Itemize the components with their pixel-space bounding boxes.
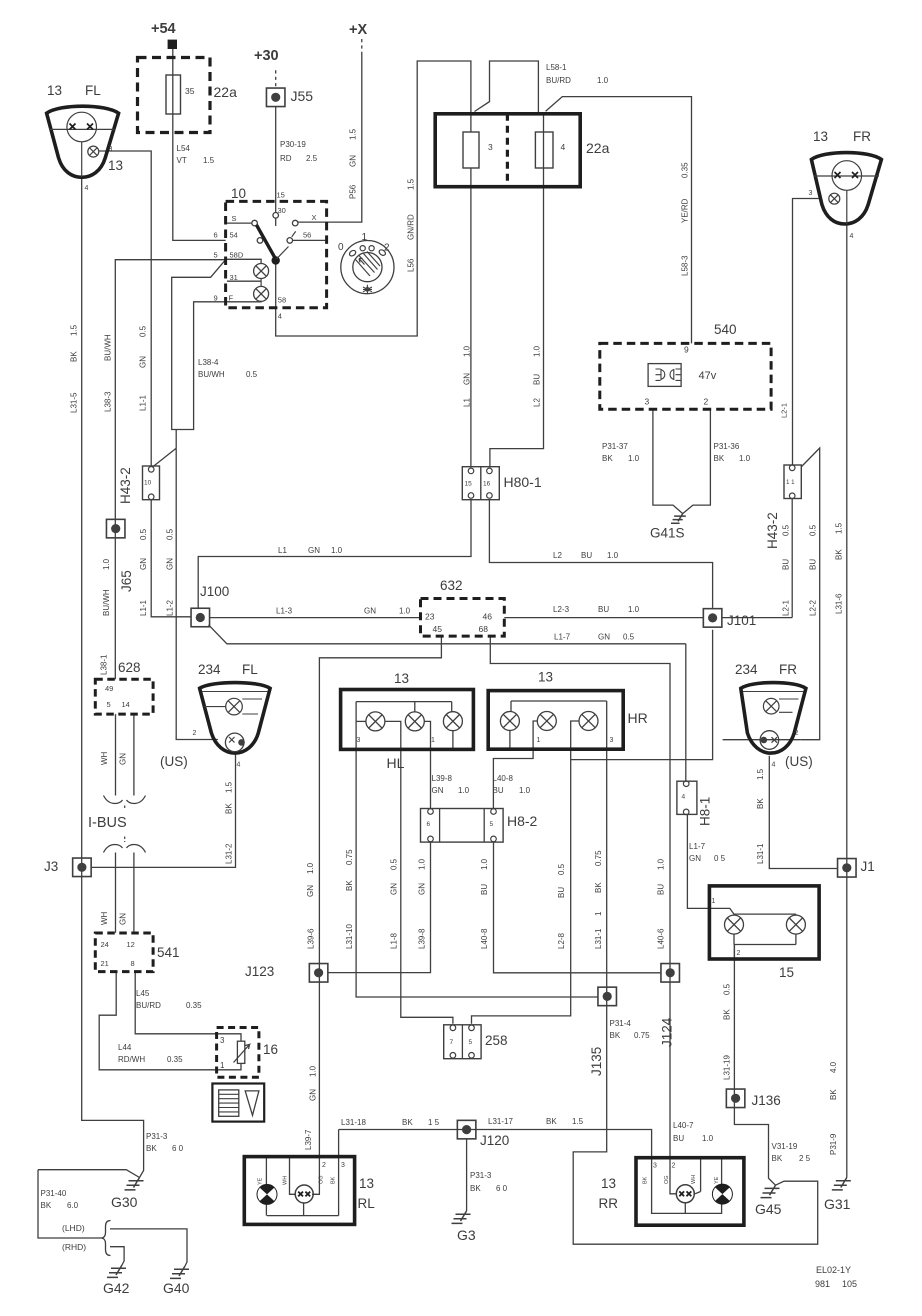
svg-text:L31-1: L31-1: [756, 843, 765, 864]
svg-text:L2: L2: [533, 398, 542, 407]
svg-text:L45: L45: [136, 989, 150, 998]
svg-text:J124: J124: [660, 1017, 675, 1047]
svg-text:GN: GN: [418, 883, 427, 895]
svg-text:FL: FL: [85, 83, 101, 98]
svg-text:I-BUS: I-BUS: [88, 815, 127, 831]
svg-text:6 0: 6 0: [172, 1144, 184, 1153]
svg-text:5: 5: [214, 251, 218, 260]
svg-text:J65: J65: [119, 570, 134, 592]
svg-text:13: 13: [538, 670, 553, 685]
svg-text:BU/RD: BU/RD: [136, 1001, 161, 1010]
svg-text:0.5: 0.5: [166, 528, 175, 540]
svg-text:0.5: 0.5: [139, 325, 148, 337]
svg-text:YE: YE: [714, 1176, 720, 1184]
svg-text:H8-2: H8-2: [507, 813, 538, 829]
svg-text:981: 981: [815, 1279, 830, 1289]
svg-text:6: 6: [214, 231, 218, 240]
svg-text:58D: 58D: [230, 251, 244, 260]
svg-text:G3: G3: [457, 1227, 476, 1243]
svg-text:BK: BK: [772, 1154, 783, 1163]
svg-text:L2-1: L2-1: [782, 599, 791, 616]
svg-text:BU: BU: [493, 786, 504, 795]
svg-text:L31-2: L31-2: [225, 843, 234, 864]
svg-text:1.0: 1.0: [739, 454, 751, 463]
svg-text:BK: BK: [225, 803, 234, 814]
svg-text:1.5: 1.5: [225, 781, 234, 793]
svg-text:14: 14: [122, 700, 130, 709]
svg-text:L31-1: L31-1: [594, 928, 603, 949]
svg-text:0.5: 0.5: [246, 370, 258, 379]
svg-text:+X: +X: [349, 22, 367, 38]
svg-text:1.0: 1.0: [418, 858, 427, 870]
svg-text:L1-7: L1-7: [689, 842, 706, 851]
svg-text:16: 16: [483, 481, 491, 488]
svg-text:4: 4: [772, 762, 776, 769]
svg-text:(RHD): (RHD): [62, 1242, 86, 1252]
svg-text:4: 4: [561, 142, 566, 152]
svg-text:(US): (US): [160, 754, 188, 769]
svg-text:RD/WH: RD/WH: [118, 1055, 145, 1064]
svg-text:1.0: 1.0: [331, 546, 343, 555]
svg-text:L40-6: L40-6: [657, 928, 666, 949]
svg-text:BU: BU: [809, 559, 818, 570]
svg-text:L2: L2: [553, 551, 562, 560]
svg-text:BK: BK: [643, 1176, 649, 1184]
svg-text:13: 13: [47, 83, 62, 98]
svg-text:BU/RD: BU/RD: [546, 76, 571, 85]
svg-text:G42: G42: [103, 1280, 130, 1296]
svg-text:16: 16: [263, 1042, 278, 1057]
svg-text:H43-2: H43-2: [765, 512, 780, 549]
svg-text:3: 3: [653, 1163, 657, 1170]
svg-text:10: 10: [144, 480, 152, 487]
svg-text:1.0: 1.0: [607, 551, 619, 560]
svg-text:OG: OG: [319, 1175, 325, 1184]
svg-text:30: 30: [278, 206, 286, 215]
svg-text:WH: WH: [100, 751, 109, 765]
svg-text:L38-4: L38-4: [198, 358, 219, 367]
svg-text:BK: BK: [345, 880, 354, 891]
svg-text:H8-1: H8-1: [698, 797, 713, 826]
svg-text:9: 9: [684, 345, 689, 355]
svg-text:0.75: 0.75: [594, 850, 603, 866]
svg-text:1: 1: [594, 911, 603, 916]
svg-text:23: 23: [425, 612, 435, 622]
svg-text:L40-8: L40-8: [493, 774, 514, 783]
svg-text:3: 3: [357, 737, 361, 744]
svg-text:HL: HL: [387, 755, 405, 771]
svg-text:BU: BU: [657, 884, 666, 895]
svg-text:GN: GN: [349, 155, 358, 167]
svg-text:1: 1: [712, 898, 716, 905]
svg-text:P30-19: P30-19: [280, 140, 306, 149]
svg-text:J120: J120: [480, 1133, 509, 1148]
svg-text:P31-37: P31-37: [602, 442, 628, 451]
svg-text:FL: FL: [242, 662, 258, 677]
svg-text:L1-1: L1-1: [139, 394, 148, 411]
svg-text:2: 2: [384, 243, 390, 254]
svg-text:BK: BK: [146, 1144, 157, 1153]
svg-text:1.5: 1.5: [756, 768, 765, 780]
svg-text:540: 540: [714, 322, 737, 337]
svg-text:2: 2: [704, 397, 709, 407]
svg-text:BK: BK: [470, 1184, 481, 1193]
svg-text:31: 31: [230, 273, 238, 282]
svg-text:15: 15: [779, 965, 794, 980]
svg-text:1.0: 1.0: [702, 1134, 714, 1143]
svg-text:15: 15: [465, 481, 473, 488]
svg-text:45: 45: [433, 624, 443, 634]
svg-text:GN: GN: [364, 607, 376, 616]
svg-text:2.5: 2.5: [306, 154, 318, 163]
svg-text:BK: BK: [70, 351, 79, 362]
svg-text:4.0: 4.0: [829, 1061, 838, 1073]
svg-text:22a: 22a: [214, 84, 238, 100]
svg-text:3: 3: [645, 397, 650, 407]
svg-text:L38-3: L38-3: [104, 391, 113, 412]
svg-text:GN: GN: [309, 1089, 318, 1101]
svg-text:BU/WH: BU/WH: [102, 589, 111, 616]
svg-text:FR: FR: [853, 129, 871, 144]
svg-text:BK: BK: [835, 549, 844, 560]
svg-text:13: 13: [359, 1176, 374, 1191]
svg-text:1.0: 1.0: [480, 858, 489, 870]
svg-text:L31-19: L31-19: [723, 1055, 732, 1080]
svg-text:BU: BU: [557, 887, 566, 898]
svg-text:2: 2: [795, 730, 799, 737]
svg-text:YE/RD: YE/RD: [681, 198, 690, 223]
svg-text:J136: J136: [752, 1093, 781, 1108]
svg-text:L58-1: L58-1: [546, 63, 567, 72]
svg-text:L2-2: L2-2: [809, 599, 818, 616]
svg-text:1.5: 1.5: [407, 178, 416, 190]
svg-text:628: 628: [118, 660, 141, 675]
svg-text:X: X: [312, 213, 317, 222]
svg-text:1: 1: [362, 232, 368, 243]
svg-text:BU: BU: [581, 551, 592, 560]
svg-text:0.35: 0.35: [681, 162, 690, 178]
svg-text:0.5: 0.5: [390, 858, 399, 870]
svg-text:24: 24: [101, 940, 109, 949]
svg-text:234: 234: [198, 662, 221, 677]
svg-text:3: 3: [341, 1162, 345, 1169]
svg-text:0.35: 0.35: [186, 1001, 202, 1010]
svg-text:58: 58: [278, 296, 286, 305]
svg-text:2: 2: [737, 950, 741, 957]
svg-text:2 5: 2 5: [799, 1154, 811, 1163]
svg-text:BK: BK: [402, 1118, 413, 1127]
svg-text:105: 105: [842, 1279, 857, 1289]
svg-text:BU: BU: [782, 559, 791, 570]
svg-text:GN: GN: [166, 558, 175, 570]
svg-text:10: 10: [231, 186, 246, 201]
svg-text:L39-8: L39-8: [418, 928, 427, 949]
svg-text:BK: BK: [714, 454, 725, 463]
svg-text:8: 8: [131, 959, 135, 968]
svg-text:68: 68: [479, 624, 489, 634]
svg-text:L1: L1: [463, 398, 472, 407]
svg-text:OG: OG: [664, 1175, 670, 1184]
svg-text:P31-3: P31-3: [146, 1132, 168, 1141]
svg-text:1.0: 1.0: [657, 858, 666, 870]
svg-text:P31-4: P31-4: [610, 1019, 632, 1028]
svg-text:S: S: [232, 214, 237, 223]
svg-text:L2-1: L2-1: [780, 403, 789, 418]
svg-text:1.5: 1.5: [349, 128, 358, 140]
svg-text:GN: GN: [463, 373, 472, 385]
svg-text:BK: BK: [829, 1089, 838, 1100]
svg-text:3: 3: [809, 190, 813, 197]
svg-text:GN: GN: [432, 786, 444, 795]
svg-text:1: 1: [220, 1061, 225, 1070]
svg-text:GN: GN: [598, 633, 610, 642]
svg-text:L2-3: L2-3: [553, 605, 570, 614]
svg-text:GN: GN: [139, 558, 148, 570]
svg-text:1.0: 1.0: [306, 862, 315, 874]
svg-text:21: 21: [101, 959, 109, 968]
svg-text:L40-8: L40-8: [480, 928, 489, 949]
svg-text:2: 2: [193, 730, 197, 737]
svg-text:2: 2: [672, 1163, 676, 1170]
svg-text:54: 54: [230, 231, 238, 240]
svg-text:L40-7: L40-7: [673, 1121, 694, 1130]
svg-text:L1-3: L1-3: [276, 607, 293, 616]
svg-text:RR: RR: [599, 1196, 619, 1211]
svg-text:541: 541: [157, 945, 180, 960]
svg-text:RD: RD: [280, 154, 292, 163]
svg-text:BK: BK: [756, 798, 765, 809]
svg-text:L58-3: L58-3: [681, 255, 690, 276]
svg-text:L38-1: L38-1: [100, 654, 109, 675]
svg-text:L2-8: L2-8: [557, 932, 566, 949]
svg-text:BU/WH: BU/WH: [198, 370, 225, 379]
svg-text:5: 5: [469, 1039, 473, 1046]
svg-text:5: 5: [490, 821, 494, 828]
svg-text:0.35: 0.35: [167, 1055, 183, 1064]
svg-text:G31: G31: [824, 1196, 851, 1212]
svg-text:FR: FR: [779, 662, 797, 677]
svg-text:L56: L56: [407, 258, 416, 272]
svg-text:L39-8: L39-8: [432, 774, 453, 783]
svg-text:GN: GN: [308, 546, 320, 555]
svg-text:L39-6: L39-6: [307, 928, 316, 949]
svg-text:0 5: 0 5: [714, 854, 726, 863]
svg-text:0.75: 0.75: [634, 1031, 650, 1040]
svg-text:4: 4: [237, 762, 241, 769]
svg-text:P56: P56: [349, 184, 358, 199]
svg-text:L31-6: L31-6: [835, 593, 844, 614]
svg-text:4: 4: [85, 185, 89, 192]
svg-text:3: 3: [610, 737, 614, 744]
svg-text:0.5: 0.5: [809, 524, 818, 536]
svg-text:BK: BK: [723, 1009, 732, 1020]
svg-text:J55: J55: [291, 88, 314, 104]
svg-text:1.0: 1.0: [597, 76, 609, 85]
svg-text:G30: G30: [111, 1194, 138, 1210]
svg-text:1.0: 1.0: [309, 1065, 318, 1077]
svg-text:1.0: 1.0: [628, 605, 640, 614]
svg-text:BK: BK: [41, 1201, 52, 1210]
svg-text:0.5: 0.5: [557, 863, 566, 875]
svg-text:4: 4: [682, 794, 686, 801]
svg-text:1.5: 1.5: [835, 522, 844, 534]
svg-text:GN/RD: GN/RD: [407, 214, 416, 240]
svg-text:G45: G45: [755, 1201, 782, 1217]
svg-text:2: 2: [322, 1162, 326, 1169]
svg-text:RL: RL: [358, 1196, 376, 1211]
svg-text:0.5: 0.5: [623, 633, 635, 642]
svg-text:13: 13: [601, 1176, 616, 1191]
svg-text:L31-17: L31-17: [488, 1117, 513, 1126]
svg-text:L44: L44: [118, 1043, 132, 1052]
svg-text:J101: J101: [727, 613, 756, 628]
svg-text:G41S: G41S: [650, 526, 685, 541]
svg-text:WH: WH: [691, 1175, 697, 1184]
svg-text:P31-9: P31-9: [829, 1133, 838, 1155]
svg-text:VT: VT: [177, 156, 187, 165]
svg-text:L39-7: L39-7: [304, 1129, 313, 1150]
svg-text:GN: GN: [390, 883, 399, 895]
svg-text:WH: WH: [100, 911, 109, 925]
svg-text:0.5: 0.5: [139, 528, 148, 540]
svg-text:1.0: 1.0: [533, 345, 542, 357]
svg-text:GN: GN: [689, 854, 701, 863]
svg-text:4: 4: [850, 233, 854, 240]
svg-text:L1-2: L1-2: [166, 599, 175, 616]
svg-text:632: 632: [440, 578, 463, 593]
svg-text:L31-10: L31-10: [345, 924, 354, 949]
svg-text:BU: BU: [673, 1134, 684, 1143]
svg-text:9: 9: [214, 294, 218, 303]
svg-text:1.0: 1.0: [399, 607, 411, 616]
svg-text:1.5: 1.5: [70, 324, 79, 336]
svg-text:1 5: 1 5: [428, 1118, 440, 1127]
svg-text:234: 234: [735, 662, 758, 677]
svg-text:H43-2: H43-2: [118, 467, 133, 504]
svg-text:0: 0: [338, 242, 344, 253]
svg-text:3: 3: [220, 1036, 225, 1045]
svg-text:P31-36: P31-36: [714, 442, 740, 451]
svg-text:J135: J135: [589, 1047, 604, 1076]
svg-text:L1-7: L1-7: [554, 633, 571, 642]
svg-text:1.0: 1.0: [463, 345, 472, 357]
svg-text:15: 15: [277, 191, 285, 200]
svg-text:13: 13: [108, 158, 123, 173]
svg-text:0.5: 0.5: [723, 983, 732, 995]
svg-text:BK: BK: [546, 1117, 557, 1126]
svg-text:(US): (US): [785, 754, 813, 769]
svg-text:GN: GN: [119, 913, 128, 925]
svg-text:1 1: 1 1: [786, 479, 795, 486]
svg-text:6: 6: [427, 821, 431, 828]
svg-text:12: 12: [127, 940, 135, 949]
svg-text:6.0: 6.0: [67, 1201, 79, 1210]
svg-text:BK: BK: [610, 1031, 621, 1040]
svg-text:1.0: 1.0: [458, 786, 470, 795]
svg-text:1: 1: [537, 737, 541, 744]
svg-text:BK: BK: [331, 1176, 337, 1184]
svg-text:1.0: 1.0: [519, 786, 531, 795]
svg-text:L1: L1: [278, 546, 287, 555]
svg-text:BK: BK: [602, 454, 613, 463]
svg-text:47v: 47v: [699, 370, 717, 382]
svg-text:H80-1: H80-1: [504, 474, 542, 490]
svg-text:L31-18: L31-18: [341, 1118, 366, 1127]
svg-text:35: 35: [185, 86, 195, 96]
svg-text:G40: G40: [163, 1280, 190, 1296]
svg-text:+54: +54: [151, 21, 176, 37]
svg-text:GN: GN: [139, 356, 148, 368]
svg-text:13: 13: [394, 671, 409, 686]
svg-text:V31-19: V31-19: [772, 1142, 798, 1151]
svg-text:L1-8: L1-8: [390, 932, 399, 949]
svg-text:4: 4: [278, 312, 282, 321]
svg-text:BU/WH: BU/WH: [104, 334, 113, 361]
svg-text:3: 3: [488, 142, 493, 152]
svg-text:BU: BU: [598, 605, 609, 614]
svg-text:J100: J100: [200, 584, 229, 599]
svg-text:GN: GN: [306, 885, 315, 897]
svg-text:+30: +30: [254, 48, 279, 64]
svg-text:HR: HR: [628, 710, 648, 726]
svg-text:L31-5: L31-5: [70, 392, 79, 413]
svg-text:BU: BU: [533, 374, 542, 385]
svg-text:22a: 22a: [586, 140, 610, 156]
svg-text:1: 1: [431, 737, 435, 744]
svg-text:1.0: 1.0: [102, 558, 111, 570]
svg-text:258: 258: [485, 1033, 508, 1048]
svg-text:L54: L54: [177, 144, 191, 153]
svg-text:J3: J3: [44, 859, 58, 874]
svg-text:GN: GN: [119, 753, 128, 765]
svg-text:EL02-1Y: EL02-1Y: [816, 1265, 851, 1275]
svg-text:6 0: 6 0: [496, 1184, 508, 1193]
svg-text:3: 3: [109, 146, 113, 153]
svg-text:L1-1: L1-1: [139, 599, 148, 616]
svg-text:13: 13: [813, 129, 828, 144]
svg-text:1.5: 1.5: [203, 156, 215, 165]
svg-text:1.0: 1.0: [628, 454, 640, 463]
svg-text:1.5: 1.5: [572, 1117, 584, 1126]
svg-text:P31-40: P31-40: [41, 1189, 67, 1198]
svg-text:5: 5: [107, 700, 111, 709]
svg-text:BU: BU: [480, 884, 489, 895]
svg-text:WH: WH: [283, 1176, 289, 1185]
svg-text:F: F: [229, 294, 234, 303]
svg-text:BK: BK: [594, 882, 603, 893]
svg-text:56: 56: [303, 231, 311, 240]
svg-text:YE: YE: [258, 1177, 264, 1185]
svg-text:0.5: 0.5: [782, 524, 791, 536]
svg-text:J1: J1: [861, 859, 875, 874]
svg-text:49: 49: [105, 684, 113, 693]
svg-text:J123: J123: [245, 964, 274, 979]
svg-text:(LHD): (LHD): [62, 1223, 85, 1233]
svg-text:0.75: 0.75: [345, 849, 354, 865]
svg-text:46: 46: [483, 612, 493, 622]
svg-text:7: 7: [450, 1039, 454, 1046]
svg-text:P31-3: P31-3: [470, 1171, 492, 1180]
